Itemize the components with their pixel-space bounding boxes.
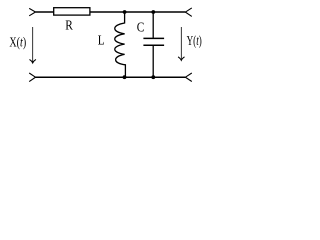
node: bottom junction of capacitor branch [151, 75, 155, 79]
node: top junction of capacitor branch [151, 10, 155, 14]
svg-text:R: R [65, 18, 73, 33]
input voltage arrow head [30, 59, 36, 63]
capacitor C bottom plate [143, 44, 164, 46]
capacitor C bottom lead [152, 46, 154, 77]
capacitor C top lead [152, 12, 154, 38]
output voltage arrow head [178, 57, 184, 61]
node: bottom junction of inductor branch [123, 75, 127, 79]
capacitor C top plate [143, 37, 164, 39]
output voltage arrow shaft [180, 27, 182, 59]
input port upper terminal [29, 8, 35, 15]
node: top junction of inductor branch [123, 10, 127, 14]
output port lower terminal [185, 73, 191, 82]
input voltage arrow shaft [32, 27, 34, 62]
svg-text:X(t): X(t) [9, 36, 26, 51]
output port upper terminal [185, 8, 191, 17]
svg-text:Y(t): Y(t) [187, 34, 202, 49]
svg-text:C: C [137, 21, 145, 36]
resistor R [54, 8, 90, 15]
svg-text:L: L [98, 33, 105, 48]
bottom rail wire [36, 76, 186, 78]
wire: resistor to output terminal (top rail) [90, 11, 186, 13]
inductor L [115, 12, 126, 77]
input port lower terminal [29, 73, 35, 82]
wire: input terminal to resistor [36, 11, 55, 13]
